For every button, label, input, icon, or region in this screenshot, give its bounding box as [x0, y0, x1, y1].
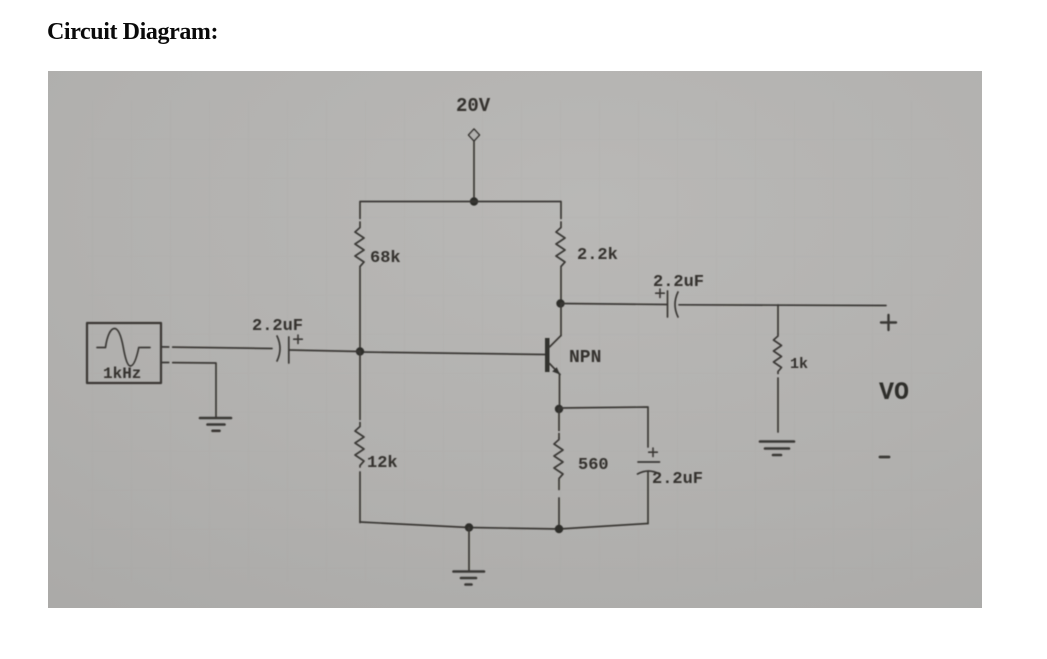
svg-text:20V: 20V — [456, 95, 491, 117]
label minus output — [880, 456, 889, 459]
resistor R1 68k — [355, 222, 364, 268]
label VO — [879, 378, 909, 407]
resistor R5 1k — [774, 305, 782, 432]
label plus of C3 — [649, 448, 658, 457]
wire 68k to base node — [359, 269, 361, 352]
capacitor C1 2.2uF input — [277, 336, 289, 363]
label 1kHz — [103, 365, 141, 383]
wire top rail — [360, 202, 561, 219]
resistor R4 560 — [554, 409, 563, 530]
svg-text:68k: 68k — [370, 249, 401, 268]
node bottom rail ground junction — [465, 523, 473, 531]
wire output cap to load — [679, 304, 886, 307]
label 68k — [370, 249, 401, 268]
wire to main ground — [468, 528, 470, 572]
wire source bottom to ground — [161, 363, 216, 418]
wire emitter to bypass cap — [559, 407, 648, 447]
label 20V supply — [456, 95, 491, 117]
svg-text:VO: VO — [879, 378, 909, 407]
label NPN — [569, 348, 601, 368]
svg-text:12k: 12k — [367, 454, 398, 473]
wire 2.2k to collector node — [560, 269, 562, 304]
capacitor C2 2.2uF output — [668, 291, 679, 317]
wire 12k upper lead — [359, 352, 361, 420]
svg-text:1k: 1k — [790, 356, 808, 373]
supply terminal — [469, 129, 480, 141]
label 1k — [790, 356, 808, 373]
node supply rail junction — [470, 197, 478, 205]
node bottom rail emitter-branch junction — [555, 525, 563, 533]
capacitor C3 2.2uF bypass — [638, 462, 660, 524]
svg-text:NPN: NPN — [569, 348, 601, 368]
svg-text:2.2uF: 2.2uF — [653, 273, 704, 292]
transistor Q1 NPN — [545, 304, 561, 410]
label plus output — [881, 315, 896, 330]
node divider junction — [356, 347, 364, 355]
wire source top output — [161, 347, 272, 349]
ground of 1k load — [760, 442, 794, 456]
svg-text:1kHz: 1kHz — [103, 365, 141, 383]
svg-text:2.2uF: 2.2uF — [252, 317, 303, 336]
label plus of C2 — [656, 289, 665, 298]
wire 12k lower lead — [359, 472, 361, 523]
wire input cap to divider node — [289, 350, 360, 352]
label 2.2uF of C3 — [652, 470, 703, 489]
source sine symbol — [97, 329, 150, 367]
source V1 1kHz box — [87, 323, 161, 383]
node collector junction — [556, 299, 564, 307]
svg-text:2.2k: 2.2k — [577, 246, 618, 265]
svg-text:2.2uF: 2.2uF — [652, 470, 703, 489]
resistor R2 12k — [355, 423, 364, 468]
wire supply to rail — [473, 141, 475, 201]
label 2.2uF of C1 — [252, 317, 303, 336]
wire base from divider node — [360, 352, 545, 355]
svg-text:560: 560 — [578, 456, 609, 475]
label 2.2k — [577, 246, 618, 265]
ground main — [454, 572, 485, 585]
label plus of C1 — [294, 335, 303, 344]
label 12k — [367, 454, 398, 473]
label 560 — [578, 456, 609, 475]
wire bottom rail — [360, 522, 648, 529]
wire collector to output cap — [561, 304, 667, 305]
node emitter junction — [555, 405, 563, 413]
resistor R3 2.2k — [556, 222, 565, 268]
label 2.2uF of C2 — [653, 273, 704, 292]
ground source — [200, 418, 231, 431]
